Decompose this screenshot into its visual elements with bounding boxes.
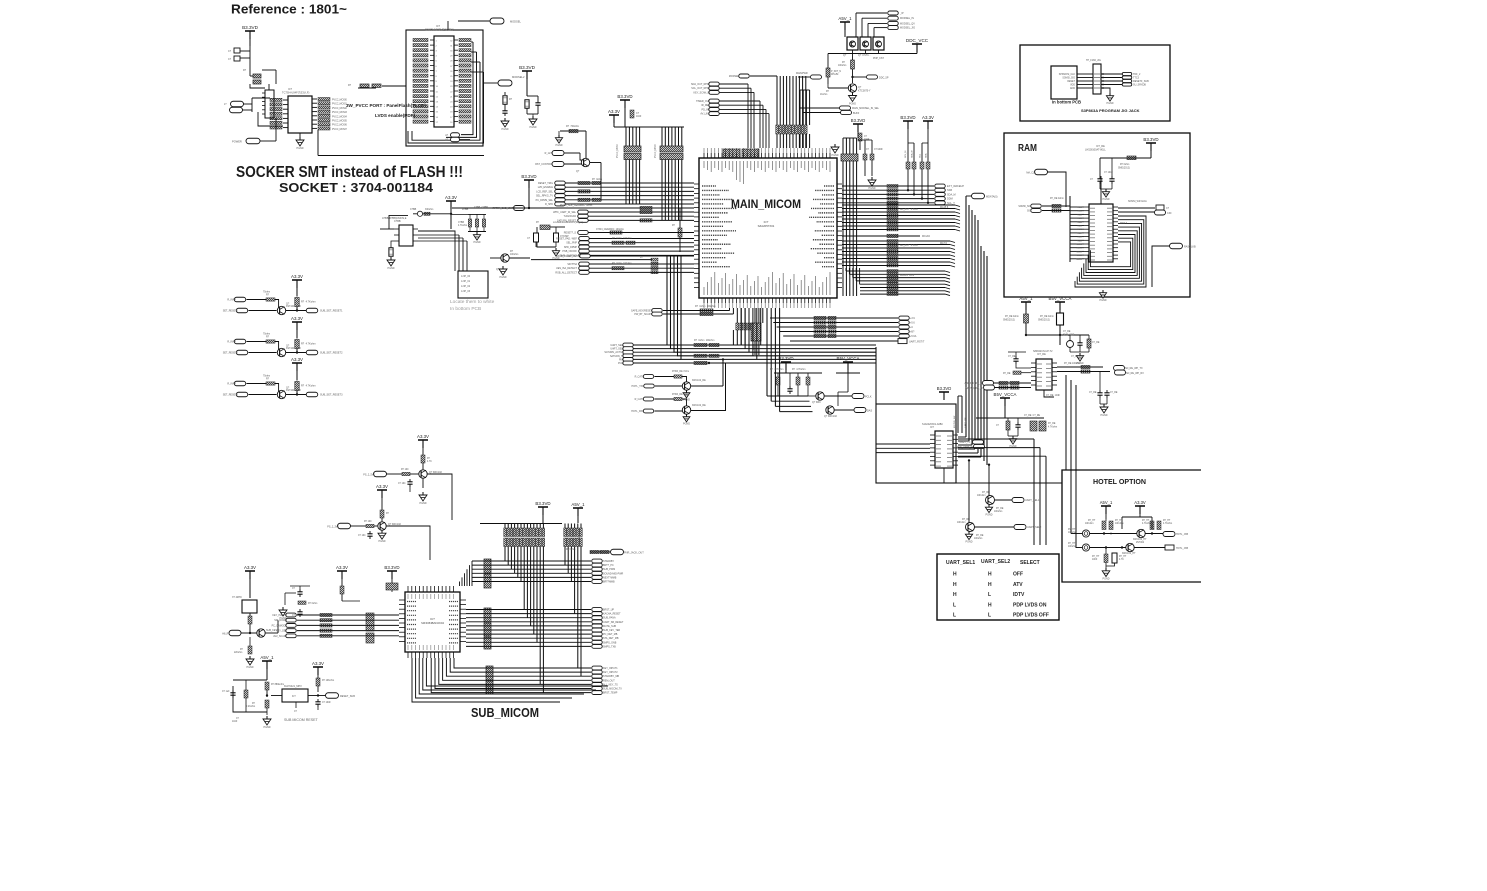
svg-text:PNP_KST: PNP_KST	[873, 57, 884, 60]
transistor Q? sub far left	[257, 629, 265, 637]
svg-text:C?/100F: C?/100F	[874, 149, 883, 151]
connector strip CN? sub group1	[484, 559, 491, 573]
svg-text:R? 880kohm: R? 880kohm	[271, 684, 284, 686]
resistor R? left of ic1103	[1013, 371, 1021, 374]
svg-text:R?_HT: R?_HT	[1119, 556, 1127, 558]
svg-text:BRST_UP: BRST_UP	[603, 609, 614, 612]
capacitor bank C? center-left	[468, 213, 486, 215]
sub ic right pin stubs	[460, 599, 466, 601]
svg-text:R?_RE: R?_RE	[1048, 423, 1056, 425]
resistor network RN? sub bundle g2	[564, 528, 567, 537]
svg-text:A5V_1: A5V_1	[838, 16, 852, 21]
svg-text:A3.3V: A3.3V	[376, 484, 388, 489]
svg-text:KTC3875-Y: KTC3875-Y	[858, 90, 871, 93]
ram ic IC?	[1089, 204, 1113, 262]
transistor Q? hotel row1	[1137, 529, 1145, 537]
junction dots y358	[722, 358, 724, 360]
svg-text:PGND: PGND	[1103, 577, 1110, 580]
connector oval input A cell 3	[234, 381, 246, 386]
wire bus micom bottom mid verticals	[754, 308, 756, 323]
svg-text:B5V_VCCA: B5V_VCCA	[1049, 296, 1072, 301]
svg-text:PNR_JACK_OUT: PNR_JACK_OUT	[624, 552, 644, 555]
connector oval output cell 1	[306, 308, 318, 313]
ground ram caps	[1105, 189, 1107, 192]
wire ram power down to ic	[1099, 158, 1101, 176]
svg-text:SUB_SET_RESET2: SUB_SET_RESET2	[320, 352, 343, 355]
svg-text:X? 4MHz: X? 4MHz	[232, 596, 243, 599]
transistor Q? sub upper2	[378, 522, 386, 530]
svg-text:R_INFR: R_INFR	[227, 341, 236, 344]
svg-text:xxxAddressBitsArm(Segro): xxxAddressBitsArm(Segro)	[553, 221, 583, 224]
capacitor C? sub upper2	[369, 531, 371, 534]
svg-text:MDATA BUS: MDATA BUS	[900, 274, 915, 277]
ground under transistor Q? center	[502, 266, 504, 269]
svg-text:104F: 104F	[232, 721, 238, 723]
transistor Q? for H_CATH upper	[682, 382, 690, 390]
svg-text:IC?: IC?	[930, 426, 935, 429]
power flag B3.3VD ram	[1146, 142, 1156, 144]
svg-text:EXT_WAKEUP: EXT_WAKEUP	[947, 185, 964, 188]
wire bus micom top second bundle	[799, 90, 801, 125]
svg-text:SU_SRXDB: SU_SRXDB	[1133, 84, 1146, 87]
svg-text:100ohm: 100ohm	[1068, 546, 1076, 548]
svg-text:RESET_PAD / MB?: RESET_PAD / MB?	[556, 238, 578, 241]
svg-text:H8_RX: H8_RX	[222, 633, 230, 636]
capacitor C? under left power flags	[630, 110, 634, 118]
resistor R? reset b	[244, 690, 248, 698]
svg-text:MODSEL: MODSEL	[510, 20, 522, 24]
svg-text:B3.3VD: B3.3VD	[535, 501, 550, 506]
capacitor C? sub cluster c	[299, 609, 301, 612]
svg-text:ATV: ATV	[1013, 582, 1023, 588]
svg-text:SCL_OUT_RPKT: SCL_OUT_RPKT	[691, 87, 710, 90]
connector oval UART_SEL1	[1012, 498, 1024, 503]
ram left bus vertical	[1069, 196, 1071, 262]
connector ovals top-left of micom group 1	[709, 82, 720, 86]
capacitor C? under B3.3VD right above micom	[858, 133, 862, 141]
ground sub upper1	[422, 492, 424, 495]
wire row 6 of y344 bundle	[634, 362, 877, 364]
svg-text:LVDS enable(PDP): LVDS enable(PDP)	[375, 113, 416, 118]
resistor R? hotel bottom b	[1112, 553, 1117, 563]
svg-text:UART_RST/T: UART_RST/T	[909, 341, 925, 344]
svg-text:SCL_M: SCL_M	[905, 151, 907, 158]
power flag A3.3V reset right	[313, 666, 323, 668]
connector double ovals ram left	[1031, 204, 1042, 208]
svg-text:A3.3V: A3.3V	[312, 661, 324, 666]
svg-text:SUB_MICOM: SUB_MICOM	[471, 706, 539, 720]
svg-text:KEY_SCAN_IN: KEY_SCAN_IN	[694, 91, 711, 94]
ic reset KIA7042 U?	[282, 689, 308, 702]
wire hotel a3.3v rail split	[1122, 516, 1152, 518]
connector oval group L1 left of micom	[555, 181, 566, 185]
wire left into transistor base	[828, 87, 848, 89]
wire bus left vertical group A lower	[625, 160, 627, 205]
wire regulator to locate box	[418, 231, 455, 232]
svg-text:M5M5V108DVP(M,JD6): M5M5V108DVP(M,JD6)	[425, 28, 454, 32]
power flag A3.3V left of micom	[609, 114, 619, 116]
svg-text:MODSEL_IN: MODSEL_IN	[900, 17, 914, 20]
svg-text:R?_RE 100ohm: R?_RE 100ohm	[1064, 363, 1080, 365]
svg-text:MA11: MA11	[1076, 247, 1082, 250]
ground H_CATH lower	[686, 414, 688, 417]
resistor R? near note	[360, 84, 369, 87]
svg-text:PGND: PGND	[502, 128, 509, 131]
svg-text:A3.3V: A3.3V	[608, 109, 620, 114]
svg-text:H: H	[953, 592, 957, 598]
ic regulator U? center-left	[399, 225, 413, 246]
op-amp main ic MAIN_MICOM IC?	[699, 158, 837, 298]
ground uart sel1	[988, 505, 990, 508]
svg-text:A5V_1: A5V_1	[260, 655, 274, 660]
svg-text:R?_HT: R?_HT	[1163, 520, 1171, 522]
resistor R? base cell 2	[247, 341, 267, 343]
svg-text:4.7Kohm: 4.7Kohm	[1048, 427, 1057, 429]
wire ic1103 top rail	[1026, 334, 1089, 336]
svg-text:R? 10Kohm: R? 10Kohm	[322, 680, 334, 682]
ground sub cluster	[282, 607, 284, 610]
resistor R? top center a	[851, 60, 855, 69]
capacitor C? subcircuit a	[534, 233, 539, 242]
svg-text:A5V_1: A5V_1	[1100, 500, 1113, 505]
main ic internal top pin numbers	[703, 161, 705, 168]
svg-text:UART_SEL1: UART_SEL1	[946, 560, 975, 566]
power flag B3.3VD top-left	[245, 30, 255, 32]
svg-text:A5V_1: A5V_1	[571, 502, 585, 507]
svg-text:PS_2_3VS: PS_2_3VS	[327, 526, 339, 529]
svg-text:LCD_REF_SEL: LCD_REF_SEL	[536, 190, 553, 193]
power flag A3.3V pull-up cell 3	[292, 362, 302, 364]
wire ic1103 right outputs	[1057, 366, 1103, 368]
svg-text:B3.3VD: B3.3VD	[851, 118, 865, 123]
svg-text:PVCC_MOSI4: PVCC_MOSI4	[332, 116, 348, 118]
svg-text:MAIN_MICOM: MAIN_MICOM	[731, 199, 801, 211]
wire bus micom top vertical bundle lower	[776, 134, 778, 148]
svg-text:HOTL_TXD: HOTL_TXD	[632, 385, 645, 388]
connector oval ram right b	[1155, 210, 1166, 215]
connector oval A? flash bottom a	[451, 133, 460, 138]
connector oval input A cell 1	[234, 297, 246, 302]
svg-text:PVCC_MOSI0: PVCC_MOSI0	[332, 100, 348, 102]
connector oval group L4 left of micom	[579, 262, 590, 266]
module box locate them to white	[458, 271, 488, 298]
svg-text:PVCC_MISO: PVCC_MISO	[655, 144, 657, 158]
svg-text:KRC102_HT: KRC102_HT	[1122, 552, 1136, 555]
svg-text:A3.3V: A3.3V	[291, 274, 303, 279]
svg-text:PC_ONMODE: PC_ONMODE	[272, 624, 288, 627]
svg-text:B3.3VD: B3.3VD	[778, 356, 793, 361]
wire rows bottom-left of micom SAFE_KEY	[652, 309, 663, 313]
connector oval group L2 left of micom	[578, 210, 589, 214]
svg-text:B3.3VD: B3.3VD	[617, 94, 632, 99]
transistor Q? cell 2	[277, 348, 285, 356]
svg-text:UART_SW: UART_SW	[964, 416, 967, 428]
svg-text:AD_BUT 0.5mA: AD_BUT 0.5mA	[900, 208, 918, 211]
svg-text:LVD_ENABLE: LVD_ENABLE	[538, 186, 554, 189]
main ic internal left pin names	[702, 185, 716, 187]
svg-text:L: L	[988, 613, 991, 619]
svg-text:UART_SEL1: UART_SEL1	[1025, 499, 1040, 502]
svg-text:MAINPWR: MAINPWR	[796, 72, 808, 75]
ground sub far left	[249, 656, 251, 659]
transistor cell H_CATH lower	[643, 397, 654, 401]
sub ic top pin stubs	[407, 586, 409, 592]
svg-text:IC?: IC?	[430, 617, 435, 621]
wire ram power rail	[1100, 157, 1151, 159]
svg-text:PVCC_MOSI7: PVCC_MOSI7	[332, 129, 348, 131]
connector oval rail y208 start	[514, 206, 525, 211]
connector oval PNR_JACK top right of sub	[590, 551, 610, 553]
svg-text:AMP3_CTRL_RX: AMP3_CTRL_RX	[965, 387, 984, 390]
power flag B3.3VD right bundle top	[853, 123, 863, 125]
resistor R? ic1103 c	[1087, 339, 1091, 348]
power flag A5V_1 reset circuit	[262, 660, 272, 662]
connector oval ram right a	[1156, 205, 1164, 210]
svg-text:B3.3VD: B3.3VD	[521, 174, 536, 179]
resistor R? sub upper2	[380, 510, 384, 518]
svg-text:UART_SB_RESET: UART_SB_RESET	[603, 621, 624, 624]
svg-text:R_CATH: R_CATH	[635, 398, 645, 401]
svg-text:A3.3V: A3.3V	[291, 357, 303, 362]
svg-text:MA9: MA9	[1078, 239, 1083, 242]
svg-text:SIO: SIO	[1027, 211, 1031, 213]
diode D? ic1103	[1067, 341, 1074, 348]
svg-text:MA6: MA6	[1078, 228, 1083, 231]
svg-text:BRT?_PC: BRT?_PC	[603, 564, 614, 567]
resistor R? reset right	[316, 678, 320, 686]
svg-text:C30: C30	[1167, 212, 1172, 215]
svg-text:R?_RE: R?_RE	[976, 535, 984, 537]
svg-text:A 3P_01: A 3P_01	[461, 280, 471, 283]
wire rail below micom y373	[774, 372, 822, 374]
resistor R? sub far left	[248, 616, 252, 624]
ground under regulator	[390, 257, 392, 260]
svg-text:C?_RE: C?_RE	[1089, 392, 1097, 394]
svg-text:PGND: PGND	[869, 187, 876, 190]
svg-text:AD_BUT 0.5mA: AD_BUT 0.5mA	[900, 244, 918, 247]
module box hotel option	[1062, 470, 1201, 582]
power flag A5V_1 over sub bundle	[573, 507, 583, 509]
power flag B5V_VCCA below micom	[843, 361, 853, 363]
wire frame around regulator	[389, 215, 408, 229]
wire long rail y208 from regulator to micom	[452, 207, 694, 209]
svg-text:R? 4.7Kohm: R? 4.7Kohm	[301, 343, 316, 346]
connector oval single g3 left of micom	[578, 231, 589, 235]
power flag A3.3V pullup pair	[923, 120, 933, 122]
svg-text:R? 0ohm 100ohm: R? 0ohm 100ohm	[694, 339, 714, 342]
svg-text:A3.3V: A3.3V	[1134, 500, 1146, 505]
svg-text:MUTE_SUB: MUTE_SUB	[603, 625, 616, 628]
svg-text:SPKMOSI_CLK: SPKMOSI_CLK	[1059, 74, 1076, 76]
ground ic1103 top cluster	[1079, 353, 1081, 356]
svg-text:SCL_T: SCL_T	[947, 202, 955, 205]
capacitor C? ic1103 a	[1079, 340, 1081, 343]
resistor R? sub cluster b	[298, 601, 306, 604]
resistor R? reset below	[265, 700, 269, 708]
resistor R? base cell 1	[247, 299, 267, 301]
svg-text:A?BB(R?BB)CMOS,E: A?BB(R?BB)CMOS,E	[382, 217, 407, 220]
svg-text:MA2: MA2	[1078, 213, 1083, 216]
power flag B3.3VD right of flash	[522, 70, 532, 72]
svg-text:KST4401-MTF: KST4401-MTF	[286, 306, 302, 308]
svg-text:B3.3VD: B3.3VD	[900, 115, 915, 120]
wire ic1102 right rows to right verticals	[958, 438, 1034, 440]
resistor array R? below B3.3VD	[253, 74, 261, 78]
power flag A3.3V sub upper1	[418, 439, 428, 441]
resistor network RN? ic1102 rail b	[1039, 421, 1046, 431]
svg-text:PGND: PGND	[986, 513, 993, 516]
power flag B3.3VD sub top right	[387, 570, 397, 572]
svg-text:MA14: MA14	[1076, 258, 1082, 261]
svg-text:Q? KST4...: Q? KST4...	[858, 54, 871, 57]
svg-text:PVCC_MOSI2: PVCC_MOSI2	[332, 108, 348, 110]
module box RAM	[1004, 133, 1190, 297]
transistor Q? cell 3	[277, 390, 285, 398]
svg-text:PGND: PGND	[1103, 198, 1110, 201]
svg-text:B5V_VCCA: B5V_VCCA	[837, 356, 860, 361]
power flag B3.3VD rail y208	[524, 179, 534, 181]
resistor bank below micom	[777, 373, 779, 377]
connector oval right of flash	[498, 80, 512, 86]
connector double oval ic1102 left	[973, 440, 984, 444]
svg-text:KEY_INPUT2: KEY_INPUT2	[603, 671, 618, 674]
svg-text:MA7:0: MA7:0	[940, 242, 948, 245]
connector oval DDC_5P	[867, 75, 878, 79]
svg-text:HOTL_JXB: HOTL_JXB	[1176, 547, 1188, 550]
resistor network RN? sub top right	[386, 583, 398, 590]
svg-text:H: H	[953, 582, 957, 588]
power flag A3.3V sub far left	[245, 570, 255, 572]
wire bus micom bottom bundle down	[736, 308, 738, 323]
svg-text:C?_RE: C?_RE	[1063, 331, 1071, 333]
svg-text:R? 700ohm: R? 700ohm	[566, 125, 579, 128]
transistor cell H_CATH upper	[643, 375, 654, 379]
svg-text:IC?: IC?	[436, 24, 441, 28]
main ic internal bottom pin numbers	[703, 287, 705, 295]
svg-text:PNB_ONOFF: PNB_ONOFF	[562, 250, 577, 253]
resistor R? below far left transistor	[249, 637, 251, 646]
connector oval HOTL_P55	[1163, 532, 1175, 537]
svg-text:R_CATH: R_CATH	[635, 376, 645, 379]
wire reset output	[308, 695, 318, 697]
wire rows ic1103 inputs	[994, 382, 1032, 384]
svg-text:HOTEL OPTION: HOTEL OPTION	[1093, 477, 1146, 486]
svg-text:MCLK0: MCLK0	[922, 235, 931, 238]
resistor R? right single a	[864, 140, 866, 154]
wire jig ground row	[1101, 88, 1110, 93]
connector oval A? flash bottom b	[451, 137, 460, 142]
wire vertical bus right x966 down to uart switch	[965, 196, 967, 437]
svg-text:SUB_SET_RESET3: SUB_SET_RESET3	[320, 394, 343, 397]
flash right pin stubs	[454, 39, 458, 41]
svg-text:MODSEL_QV: MODSEL_QV	[900, 22, 915, 25]
ic block In bottom PCB	[1051, 66, 1077, 99]
svg-text:PC_DET_MB: PC_DET_MB	[603, 633, 618, 636]
svg-text:+5.6A: +5.6A	[910, 335, 917, 338]
jumper component C?BB on wire y213.8	[413, 213, 451, 215]
svg-text:C?BB: C?BB	[394, 220, 401, 223]
connector oval MAINPWR	[811, 75, 822, 79]
connector oval MA bus right	[972, 193, 985, 199]
svg-text:R_INFR: R_INFR	[227, 383, 236, 386]
wire bus micom top second bundle lower	[799, 134, 801, 148]
svg-text:GND: GND	[1070, 88, 1075, 90]
svg-text:C?BB: C?BB	[458, 222, 464, 224]
svg-text:A3.3V: A3.3V	[445, 195, 457, 200]
wire bus micom bottom right verticals long	[766, 308, 768, 396]
capacitor C? below micom rail	[789, 386, 791, 389]
resistor boxes ram left mid	[1052, 204, 1061, 207]
transistor array Q? top center box1	[847, 37, 858, 50]
capacitor C? ic1102 rail	[1017, 422, 1019, 425]
svg-text:4.7K: 4.7K	[427, 461, 432, 463]
svg-text:MA15:8: MA15:8	[940, 206, 949, 209]
transistor Q? uart sel2	[966, 523, 975, 532]
svg-text:R?_RE 0ohm: R?_RE 0ohm	[1005, 316, 1019, 318]
wire ic1102 verticals down from rows	[1033, 439, 1035, 545]
wire risers sub group1 to ic top	[471, 561, 473, 586]
svg-text:MODSEL_JIG: MODSEL_JIG	[900, 27, 915, 30]
svg-text:PGND: PGND	[1101, 414, 1108, 417]
svg-text:Locate them to white: Locate them to white	[450, 299, 495, 305]
wire ram vcc to ic top	[1100, 176, 1102, 204]
wire rows sub output group1	[472, 560, 591, 562]
capacitor C? reset right	[317, 699, 319, 702]
wire pullup verticals to rows	[907, 169, 909, 190]
svg-text:L: L	[953, 602, 956, 608]
resistor network RN? sub bundle g1	[504, 528, 507, 537]
flash left pin stubs and net boxes	[430, 39, 434, 41]
power flag B3.3VD ic1102	[939, 391, 949, 393]
svg-text:SOMSI_SIO: SOMSI_SIO	[1062, 78, 1075, 80]
connector oval ram MCLK	[1035, 169, 1048, 175]
resistor network column end of rail	[651, 258, 658, 261]
resistor pair R? hotel right	[1150, 521, 1154, 530]
svg-text:OFF: OFF	[1013, 572, 1023, 578]
svg-text:MA_CLK: MA_CLK	[1026, 172, 1036, 175]
svg-text:PGND: PGND	[474, 241, 481, 244]
wire reset circuit frame	[233, 686, 267, 712]
transistor Q? below micom a	[816, 392, 824, 400]
svg-text:RESET: RESET	[1067, 81, 1075, 83]
transistor Q? for H_CATH lower	[682, 406, 690, 414]
svg-text:B3.3VD: B3.3VD	[384, 565, 399, 570]
net label boxes sub left	[320, 613, 332, 616]
svg-text:MA8: MA8	[1078, 236, 1083, 239]
resistor network RN? ic1102 rail a	[1030, 421, 1037, 431]
resistor R? pullup 4	[926, 162, 930, 169]
power flag DDC_VCC	[912, 43, 922, 45]
svg-text:B3.3VD: B3.3VD	[937, 386, 951, 391]
ram ic left pins	[1084, 206, 1089, 208]
connector oval CN? left	[231, 101, 244, 107]
svg-text:PVCC_MOSI: PVCC_MOSI	[617, 144, 619, 158]
ground sub upper2	[381, 530, 383, 533]
resistor array R? cell 1	[295, 298, 299, 307]
svg-text:RST_CONTROL: RST_CONTROL	[535, 163, 553, 166]
svg-text:LH528100AT-80LL: LH528100AT-80LL	[1085, 149, 1106, 152]
connector oval PCLK	[852, 394, 864, 399]
svg-text:PGND: PGND	[530, 126, 537, 129]
wire pullup verticals from flags	[907, 129, 909, 143]
svg-text:MA4: MA4	[1078, 221, 1083, 224]
svg-text:PGND: PGND	[247, 666, 254, 669]
connector strip CN? sub group2	[484, 608, 491, 622]
svg-text:10Kohm: 10Kohm	[977, 495, 986, 497]
wire ic1102 power verticals	[957, 396, 959, 433]
svg-text:S80842CN-UP-T2: S80842CN-UP-T2	[1033, 350, 1053, 353]
wire sub upper2 output	[386, 526, 430, 560]
